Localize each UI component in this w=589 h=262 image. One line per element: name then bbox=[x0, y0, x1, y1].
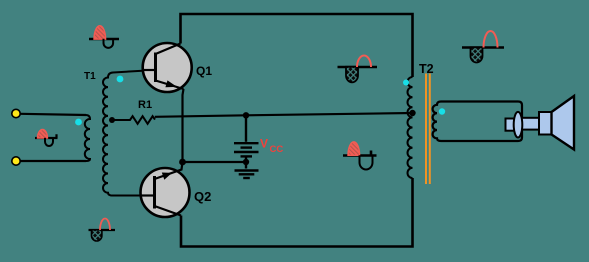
node dot: cyan T1 primary top bbox=[75, 119, 82, 126]
input terminal J1 (top) bbox=[12, 109, 20, 117]
node dot: cyan T1 secondary top bbox=[117, 76, 124, 83]
node: battery top junction bbox=[243, 112, 249, 118]
svg-text:Q2: Q2 bbox=[194, 189, 211, 204]
svg-text:R1: R1 bbox=[138, 99, 152, 111]
wire input top to T1 primary bbox=[21, 114, 87, 115]
node: emitter junction bbox=[179, 159, 186, 166]
speaker LS1 bbox=[506, 96, 575, 150]
waveform icon: below T1 (negative first) bbox=[89, 219, 116, 242]
wire: Q1 collector to top rail to T2 primary top bbox=[181, 14, 413, 77]
waveform icon: Q1 collector (negative first) bbox=[338, 56, 378, 83]
transistor Q2 bbox=[141, 162, 190, 217]
waveform icon: Q2 collector (positive first) bbox=[343, 142, 377, 170]
node dot: cyan T2 secondary top bbox=[439, 108, 445, 114]
svg-text:Q1: Q1 bbox=[196, 64, 212, 78]
wire: Q1 emitter down to emitter junction bbox=[183, 89, 184, 162]
waveform icon: at input terminals (positive first) bbox=[35, 130, 58, 147]
wire: VCC rail from R1 to T2 center tap bbox=[155, 113, 413, 117]
transformer T1 primary winding bbox=[85, 115, 90, 161]
transformer T2 primary winding bbox=[408, 77, 413, 178]
transformer T1 secondary winding bbox=[103, 70, 156, 196]
transformer T2 core bbox=[425, 74, 427, 185]
resistor R1 bbox=[111, 116, 156, 124]
node: T2 center tap junction bbox=[409, 110, 415, 116]
svg-text:T1: T1 bbox=[84, 71, 96, 82]
svg-text:CC: CC bbox=[270, 144, 284, 155]
input terminal J2 (bottom) bbox=[12, 157, 20, 165]
svg-text:V: V bbox=[260, 137, 268, 151]
transformer T2 secondary winding + wire loop to speaker bbox=[433, 102, 522, 142]
node dot: cyan T2 primary top bbox=[403, 80, 409, 86]
wire: Q2 collector to bottom rail to T2 primary bottom bbox=[181, 178, 413, 247]
node: T1 center tap junction bbox=[109, 117, 115, 123]
ground bbox=[235, 171, 259, 179]
svg-text:T2: T2 bbox=[419, 62, 434, 76]
waveform icon: input top-left (positive first) bbox=[89, 26, 119, 48]
battery VCC bbox=[234, 116, 259, 169]
wire input bottom to T1 primary bbox=[21, 160, 87, 162]
node: battery bottom junction bbox=[243, 159, 249, 165]
transistor Q1 bbox=[143, 43, 192, 92]
waveform icon: above T2 output (negative first) bbox=[462, 31, 504, 62]
wire: emitter rail to battery bottom bbox=[183, 161, 247, 163]
